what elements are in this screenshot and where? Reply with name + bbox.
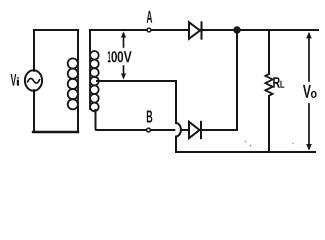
arrow 100V up xyxy=(121,32,126,48)
label B xyxy=(147,111,153,123)
resistor RL leads xyxy=(268,30,270,74)
arrow Vo down xyxy=(306,104,312,151)
scan speck xyxy=(245,141,247,143)
wire diode D2 cathode to junction riser xyxy=(201,129,237,131)
transformer primary winding xyxy=(68,55,78,109)
diode D1 xyxy=(189,22,202,38)
wire hop to diode D2 xyxy=(182,129,189,131)
wire secondary top lead xyxy=(89,30,91,52)
wire crossover hop xyxy=(176,123,181,137)
transformer secondary winding xyxy=(90,51,99,111)
label Vo xyxy=(303,85,317,98)
scan speck xyxy=(250,145,252,147)
wire node B to hop xyxy=(149,129,175,131)
wire center tap xyxy=(97,80,176,82)
label Vi xyxy=(11,74,19,86)
diode D2 xyxy=(189,122,201,138)
label 100V xyxy=(108,51,132,62)
wire junction riser xyxy=(236,30,238,130)
wire primary bottom xyxy=(33,131,78,133)
resistor RL xyxy=(265,74,272,96)
wire Vi vertical top lead xyxy=(33,30,35,71)
wire primary bottom lead xyxy=(77,107,79,132)
wire secondary bottom lead xyxy=(96,110,149,130)
junction dot xyxy=(234,27,239,32)
node B xyxy=(147,128,151,132)
ac source Vi xyxy=(25,70,42,90)
node A xyxy=(147,28,151,32)
scan speck xyxy=(292,143,294,145)
wire bottom rail xyxy=(176,151,315,153)
wire primary top lead xyxy=(77,30,79,59)
label RL xyxy=(273,77,284,88)
arrow Vo up xyxy=(306,32,312,81)
wire center tap vertical lower xyxy=(175,137,177,153)
wire top-left rail from Vi to primary xyxy=(34,29,78,31)
label A xyxy=(147,11,153,23)
wire Vi vertical bottom lead xyxy=(33,90,35,132)
arrow 100V down xyxy=(121,66,126,80)
wire top rail right xyxy=(90,29,318,31)
wire center tap vertical upper xyxy=(175,81,177,123)
